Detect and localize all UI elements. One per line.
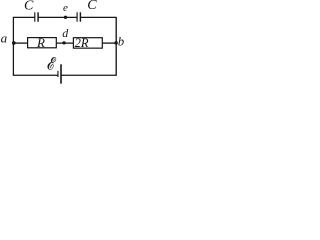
svg-text:C: C (24, 0, 34, 13)
node d label (62, 26, 69, 40)
svg-text:2R: 2R (75, 36, 89, 50)
node a junction dot (12, 41, 16, 45)
capacitor C1 (left) (35, 12, 38, 21)
svg-text:a: a (1, 31, 8, 46)
wire middle-left segment (13, 42, 27, 44)
battery EMF source plates (58, 64, 61, 83)
svg-text:d: d (62, 26, 69, 40)
wire middle-right segment (102, 42, 116, 44)
label EMF script E (48, 57, 56, 69)
svg-text:b: b (118, 35, 124, 49)
svg-text:R: R (36, 35, 45, 50)
wire top-middle segment (38, 16, 77, 18)
resistor R1 box (28, 38, 57, 48)
node d junction dot (62, 41, 65, 44)
node b junction dot (114, 41, 118, 45)
capacitor C2 (right) (77, 12, 80, 21)
node e label (63, 2, 68, 14)
label C2 value C (87, 0, 97, 13)
node a label (1, 31, 8, 46)
node e junction dot (64, 16, 67, 19)
label R1 value R (36, 35, 45, 50)
svg-text:C: C (87, 0, 97, 13)
resistor R2 box (73, 38, 102, 48)
wire right vertical edge (115, 17, 117, 75)
wire top-left segment (13, 16, 35, 18)
wire bottom-left segment (13, 74, 58, 76)
wire middle-center segment (56, 42, 73, 44)
label R2 value 2R (75, 36, 89, 50)
wire left vertical edge (12, 17, 14, 75)
svg-text:e: e (63, 2, 68, 14)
label C1 value C (24, 0, 34, 13)
wire bottom-right segment (61, 74, 117, 76)
node b label (118, 35, 124, 49)
wire top-right segment (80, 16, 116, 18)
